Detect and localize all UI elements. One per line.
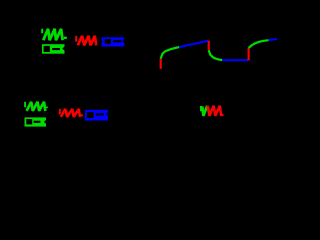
capacitor C3 [25, 117, 47, 126]
red edge 2 [208, 41, 210, 51]
capacitor C2 [102, 37, 125, 46]
blue ramp 2 [269, 39, 278, 40]
red edge 3 [248, 48, 250, 60]
green charge curve 2 [249, 40, 269, 48]
red edge 1 [160, 59, 162, 69]
blue flat segment [222, 59, 248, 61]
resistor R2 [76, 36, 96, 46]
capacitor C1 [42, 44, 65, 54]
blue ramp 1 [179, 41, 209, 47]
green discharge curve [209, 50, 223, 60]
resistor R3 [25, 102, 46, 111]
resistor R4 [60, 109, 82, 117]
green charge curve 1 [161, 47, 180, 59]
capacitor C4 [85, 110, 108, 121]
resistor R5 [201, 106, 222, 117]
resistor R1 [42, 29, 65, 40]
